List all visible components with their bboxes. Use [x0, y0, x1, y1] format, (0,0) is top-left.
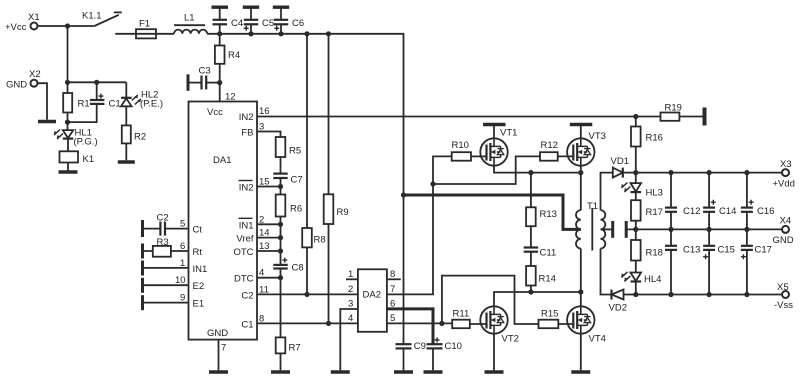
- capacitor C10: [427, 337, 462, 370]
- switch K1.1: [82, 11, 122, 27]
- terminal X5: [774, 282, 793, 311]
- svg-text:VT1: VT1: [500, 128, 517, 139]
- svg-text:R7: R7: [289, 343, 301, 354]
- terminal bar tap left: [611, 221, 614, 238]
- svg-text:X4: X4: [780, 216, 792, 227]
- svg-text:GND: GND: [207, 328, 228, 339]
- IC DA1: [189, 102, 258, 340]
- node C12 +Vdd: [668, 170, 673, 175]
- wire X1 node down to R1 network: [67, 26, 69, 82]
- svg-text:R19: R19: [665, 103, 682, 114]
- svg-text:K1: K1: [83, 154, 95, 165]
- resistor R2: [122, 125, 146, 160]
- pin 7 GND stub: [219, 340, 227, 371]
- resistor R12: [540, 140, 574, 161]
- svg-text:C14: C14: [719, 206, 736, 217]
- svg-text:HL4: HL4: [644, 274, 661, 285]
- resistor R6: [276, 187, 302, 225]
- node pin4/C8/R7: [278, 275, 283, 280]
- wire T1 secondary top to VD1: [601, 249, 612, 295]
- svg-text:IN1: IN1: [193, 264, 208, 275]
- svg-text:C7: C7: [291, 175, 303, 186]
- wire T1 secondary tap: [601, 228, 613, 230]
- ground X2: [38, 120, 56, 123]
- svg-text:VD1: VD1: [611, 156, 629, 167]
- wire +26V feed to T1 center tap: [404, 195, 581, 229]
- terminal bar Rt: [141, 244, 144, 259]
- svg-text:Rt: Rt: [193, 247, 203, 258]
- node R4/C3/pin12: [217, 80, 222, 85]
- wire T1 secondary bottom to VD2: [601, 173, 613, 211]
- capacitor C9: [396, 341, 426, 370]
- ground R7: [271, 370, 290, 373]
- resistor R5: [276, 137, 301, 174]
- DA2 pin 6 wire to C10: [387, 299, 433, 345]
- filter column 2: [708, 173, 710, 295]
- resistor R4: [215, 34, 240, 102]
- svg-text:+Vcc: +Vcc: [5, 22, 27, 33]
- transformer T1: [576, 201, 605, 251]
- node pin13 chain: [278, 248, 283, 253]
- svg-text:7: 7: [390, 284, 395, 295]
- svg-text:FB: FB: [241, 128, 253, 139]
- DA2 pin 8 stub: [387, 269, 401, 280]
- pin 13 OTC: [233, 241, 280, 258]
- resistor R1: [63, 82, 89, 130]
- capacitor C5: [244, 9, 274, 34]
- capacitor C14: [703, 200, 736, 217]
- node R9/C1 line: [326, 321, 331, 326]
- DA2 pin 3 to ground: [340, 299, 358, 371]
- wire gate node to R12: [433, 156, 540, 184]
- svg-text:R5: R5: [289, 146, 301, 157]
- wire tap bar to GND rail: [626, 228, 782, 230]
- resistor R15: [539, 309, 575, 329]
- svg-text:R15: R15: [541, 309, 558, 320]
- node rail drop / C9 / tap feed: [401, 192, 406, 197]
- chassis ground above C4: [212, 5, 229, 8]
- wire VT3 source to T1: [580, 166, 582, 210]
- resistor R3: [153, 237, 171, 257]
- svg-text:DA2: DA2: [363, 290, 381, 301]
- capacitor C4: [213, 9, 244, 34]
- capacitor C11: [524, 248, 557, 267]
- wire C9 column: [403, 195, 405, 344]
- capacitor C17: [741, 245, 772, 260]
- terminal bar Ct: [141, 220, 144, 237]
- svg-text:GND: GND: [773, 235, 794, 246]
- wire switch to F1: [115, 33, 136, 35]
- svg-text:R9: R9: [337, 207, 349, 218]
- svg-text:2: 2: [348, 284, 353, 295]
- relay coil K1: [60, 151, 95, 170]
- pin 4 DTC: [234, 268, 281, 285]
- node rail/R9: [326, 31, 331, 36]
- svg-text:DA1: DA1: [213, 155, 231, 166]
- node rail/C5: [248, 31, 253, 36]
- node C12/C13 GND: [668, 227, 673, 232]
- terminal bar E1: [141, 295, 144, 310]
- DA2 pin 5 wire: [387, 313, 452, 324]
- svg-text:R1: R1: [78, 99, 90, 110]
- power bar above VT1: [483, 123, 506, 126]
- node C17 -Vss: [744, 292, 749, 297]
- node gate drive A (pin7/R10/R12): [430, 181, 435, 186]
- svg-text:VT4: VT4: [589, 334, 606, 345]
- pin 16 IN2: [239, 106, 636, 123]
- pin 9 E1: [143, 293, 205, 310]
- terminal X2: [6, 69, 41, 91]
- svg-text:R4: R4: [228, 50, 240, 61]
- svg-text:C12: C12: [683, 206, 700, 217]
- resistor R17: [631, 200, 663, 229]
- svg-text:OTC: OTC: [233, 247, 253, 258]
- svg-text:IN2: IN2: [239, 183, 254, 194]
- node rail/C6: [278, 31, 283, 36]
- svg-text:(P.G.): (P.G.): [74, 137, 98, 148]
- ground C10: [424, 370, 443, 373]
- svg-text:R2: R2: [134, 132, 146, 143]
- fuse F1: [136, 19, 156, 39]
- svg-text:4: 4: [348, 313, 353, 324]
- svg-text:-Vss: -Vss: [774, 300, 793, 311]
- resistor R18: [631, 229, 663, 272]
- chassis ground above C5: [243, 5, 259, 8]
- svg-text:IN2: IN2: [239, 112, 254, 123]
- ground C9: [394, 370, 413, 373]
- node +Vdd rail / VD1 / R16 / HL3: [633, 170, 638, 175]
- resistor R19: [636, 103, 704, 121]
- svg-text:1: 1: [348, 269, 353, 280]
- svg-text:8: 8: [390, 269, 395, 280]
- svg-text:Ct: Ct: [193, 225, 203, 236]
- wire R15 link from pin5: [442, 276, 539, 324]
- svg-text:R18: R18: [646, 248, 663, 259]
- svg-text:VT2: VT2: [502, 334, 519, 345]
- node pin2 chain: [278, 222, 283, 227]
- node pin5/R11/R15: [439, 321, 444, 326]
- svg-text:12: 12: [225, 92, 236, 103]
- pin 2 IN1-bar: [239, 214, 281, 231]
- wire R1/C1/HL2 top: [68, 81, 127, 83]
- filter column 3: [746, 173, 748, 295]
- DA2 pin 7 wire to gate node: [387, 184, 433, 295]
- svg-text:C17: C17: [755, 245, 772, 256]
- wire X1 to junction: [37, 25, 94, 27]
- svg-text:F1: F1: [139, 19, 150, 30]
- capacitor C12: [665, 206, 700, 217]
- svg-text:R12: R12: [541, 140, 558, 151]
- svg-text:C10: C10: [445, 341, 462, 352]
- svg-text:R13: R13: [540, 209, 557, 220]
- LED HL1: [54, 128, 98, 152]
- svg-text:R6: R6: [290, 204, 302, 215]
- ground VT4: [571, 370, 590, 373]
- terminal X4: [773, 216, 794, 247]
- wire +26V top rail: [207, 34, 403, 195]
- svg-text:7: 7: [221, 343, 226, 354]
- node R1 bottom / C1 return / HL1: [65, 120, 70, 125]
- wire -Vss rail: [636, 294, 782, 296]
- capacitor C7: [273, 174, 302, 187]
- svg-text:L1: L1: [184, 13, 195, 24]
- svg-text:R11: R11: [453, 309, 470, 320]
- svg-text:3: 3: [348, 299, 353, 310]
- svg-text:DTC: DTC: [234, 274, 254, 285]
- filter column 1: [670, 173, 672, 295]
- ground VT2: [485, 370, 504, 373]
- transistor VT1: [480, 128, 517, 166]
- svg-text:C2: C2: [157, 213, 169, 224]
- svg-text:C6: C6: [292, 18, 304, 29]
- svg-text:C9: C9: [414, 341, 426, 352]
- svg-text:E2: E2: [193, 281, 205, 292]
- terminal bar tap right: [625, 221, 628, 238]
- node R8/C2 line: [304, 292, 309, 297]
- pin 14 Vref: [236, 228, 280, 245]
- svg-text:+Vdd: +Vdd: [773, 179, 795, 190]
- svg-text:C11: C11: [540, 248, 557, 259]
- svg-text:E1: E1: [193, 299, 205, 310]
- node rail/R4/C4: [217, 31, 222, 36]
- power bar above VT3: [570, 123, 593, 126]
- node C14 +Vdd: [707, 170, 712, 175]
- wire VT4 source to ground: [580, 334, 582, 371]
- resistor R11: [452, 309, 487, 329]
- ground below R2: [118, 160, 135, 163]
- pin 15 IN2-bar: [239, 177, 281, 194]
- DA2 pin 1 stub: [346, 269, 358, 280]
- svg-text:Vcc: Vcc: [207, 107, 223, 118]
- svg-text:5: 5: [390, 313, 395, 324]
- pin 10 E2: [143, 275, 205, 292]
- svg-text:GND: GND: [6, 80, 27, 91]
- node R1 top: [65, 80, 70, 85]
- svg-text:C13: C13: [683, 245, 700, 256]
- svg-text:C2: C2: [241, 290, 253, 301]
- node C1 top: [94, 80, 99, 85]
- pin 3 FB: [241, 122, 280, 139]
- wire VT1 source: [494, 166, 581, 173]
- terminal bar C3 left: [187, 74, 190, 91]
- node C15 -Vss: [707, 292, 712, 297]
- svg-text:R8: R8: [314, 235, 326, 246]
- IC DA2: [358, 269, 387, 332]
- resistor R14: [526, 266, 556, 292]
- capacitor C1: [68, 82, 121, 122]
- capacitor C3: [188, 66, 219, 90]
- svg-text:R10: R10: [452, 140, 469, 151]
- wire chain pin2 to pin14: [280, 224, 282, 237]
- node GND rail / R17 / R18: [633, 227, 638, 232]
- svg-text:C5: C5: [262, 18, 274, 29]
- resistor R13: [526, 173, 557, 248]
- diode VD2: [609, 290, 636, 314]
- node T1 primary top / VT3 source: [578, 170, 583, 175]
- svg-text:C1: C1: [109, 99, 121, 110]
- chassis ground above C6: [273, 5, 289, 8]
- ground below K1: [59, 170, 78, 173]
- terminal bar E2: [141, 278, 144, 293]
- node R14 bottom: [528, 289, 533, 294]
- node C14/C15 GND: [707, 227, 712, 232]
- LED HL2: [121, 82, 163, 125]
- svg-text:X5: X5: [777, 282, 789, 293]
- terminal bar IN1: [141, 261, 144, 276]
- node R19/R16 on IN2 line: [633, 114, 638, 119]
- resistor R10: [452, 140, 487, 161]
- pin 8 C1: [241, 313, 358, 330]
- wire VT1 drain to +V bar: [493, 126, 495, 138]
- node T1 primary bottom / VT4 drain: [578, 289, 583, 294]
- ground DA1: [209, 370, 228, 373]
- svg-text:16: 16: [259, 106, 270, 117]
- LED HL4: [621, 272, 661, 295]
- terminal X1: [5, 12, 40, 33]
- wire VT3 drain to +V bar: [580, 126, 582, 138]
- node C13 -Vss: [668, 292, 673, 297]
- svg-text:R16: R16: [646, 133, 663, 144]
- svg-text:Vref: Vref: [236, 234, 253, 245]
- transistor VT2: [480, 306, 519, 344]
- svg-text:X2: X2: [29, 69, 41, 80]
- svg-text:C4: C4: [231, 18, 243, 29]
- node pin15/C7/R6: [278, 184, 283, 189]
- capacitor C6: [274, 9, 304, 34]
- node pin14 chain: [278, 235, 283, 240]
- resistor R7: [276, 337, 301, 370]
- wire node B: VT2 drain / R14 / VT4 drain / T1 primary bottom: [494, 292, 581, 306]
- svg-text:(P.E.): (P.E.): [140, 99, 163, 110]
- svg-text:R14: R14: [539, 274, 556, 285]
- pin 6 Rt: [143, 241, 203, 258]
- svg-text:VD2: VD2: [609, 303, 627, 314]
- ground DA2 pin3: [331, 370, 350, 373]
- resistor R16: [631, 117, 663, 173]
- wire chain pin14 to pin13: [280, 238, 282, 251]
- wire F1 to L1: [156, 33, 174, 35]
- svg-text:IN1: IN1: [239, 220, 254, 231]
- wire VT4 drain up to node B: [580, 292, 582, 306]
- svg-text:R17: R17: [646, 207, 663, 218]
- svg-text:C8: C8: [292, 263, 304, 274]
- pin 5 Ct: [165, 219, 202, 236]
- terminal bar R19: [703, 108, 707, 126]
- svg-text:K1.1: K1.1: [82, 11, 102, 22]
- resistor R8 pullup: [302, 34, 325, 295]
- svg-text:C15: C15: [718, 245, 735, 256]
- terminal X3: [773, 159, 795, 190]
- capacitor C8: [273, 251, 303, 278]
- node junction X1/R1: [65, 23, 70, 28]
- capacitor C15: [703, 245, 735, 260]
- node rail/R8: [304, 31, 309, 36]
- capacitor C16: [741, 200, 775, 217]
- transistor VT4: [567, 306, 606, 344]
- wire X2 to ground: [37, 83, 47, 120]
- wire T1 primary bottom to node B: [580, 249, 582, 293]
- node -Vss rail / HL4 / VD2: [633, 292, 638, 297]
- svg-text:R3: R3: [157, 237, 169, 248]
- wire DTC node down to R7: [280, 278, 282, 338]
- svg-text:C3: C3: [199, 66, 211, 77]
- node C16 +Vdd: [744, 170, 749, 175]
- node R13 top: [528, 170, 533, 175]
- pin 11 C2: [241, 284, 358, 301]
- inductor L1: [174, 13, 207, 34]
- resistor R9 pullup: [324, 34, 349, 324]
- svg-text:VT3: VT3: [589, 131, 606, 142]
- svg-text:C1: C1: [241, 319, 253, 330]
- transistor VT3: [567, 131, 606, 166]
- capacitor C13: [665, 245, 700, 256]
- svg-text:X3: X3: [780, 159, 792, 170]
- wire VT2 source to ground: [493, 334, 495, 371]
- pin 1 IN1: [143, 258, 208, 275]
- diode VD1: [611, 156, 636, 178]
- capacitor C2 timing: [143, 213, 169, 236]
- svg-text:C16: C16: [757, 206, 774, 217]
- svg-text:X1: X1: [28, 12, 40, 23]
- wire gate node to R10: [433, 156, 452, 184]
- LED HL3: [621, 173, 663, 201]
- wire +Vdd rail: [636, 172, 782, 174]
- svg-text:HL3: HL3: [646, 188, 663, 199]
- node C16/C17 GND: [744, 227, 749, 232]
